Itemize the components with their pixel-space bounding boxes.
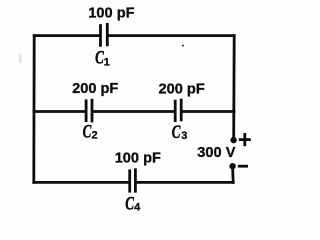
minus sign of source [239,165,246,168]
wire top-left to C1 left plate [34,34,99,37]
label C2 [83,121,98,142]
wire right side vertical lower [231,169,234,182]
capacitor C3 plates [175,100,181,121]
plus sign of source [240,134,249,144]
terminal dot + [230,137,236,143]
capacitor C2 plates [86,100,92,121]
faint smudge left margin [19,54,22,63]
label C4 [125,193,141,214]
svg-text:100 pF: 100 pF [88,5,134,21]
svg-text:C: C [125,193,134,213]
capacitor C4 plates [130,170,136,192]
wire middle right segment [182,110,234,113]
wire middle segment between C2 and C3 [93,110,174,113]
wire middle left segment [34,110,85,113]
wire left side vertical [32,36,35,183]
svg-text:3: 3 [181,130,187,142]
capacitor C1 plates [101,24,108,45]
svg-text:100 pF: 100 pF [115,150,161,166]
svg-text:200 pF: 200 pF [159,81,205,97]
svg-text:C: C [172,122,181,143]
svg-text:300 V: 300 V [197,145,235,161]
wire right side vertical upper [232,36,235,138]
terminal dot - [229,163,235,169]
svg-text:200 pF: 200 pF [72,81,118,97]
svg-text:4: 4 [134,201,141,213]
label C1 [95,48,110,69]
svg-text:1: 1 [104,56,110,68]
wire C4 right plate to bottom-right corner [137,181,234,184]
svg-text:C: C [83,121,92,142]
wire bottom-left to C4 left plate [34,181,129,184]
stray ink speck [182,45,184,47]
label C3 [172,122,188,143]
svg-text:2: 2 [92,129,98,141]
wire C1 right plate to top-right corner [109,34,235,37]
